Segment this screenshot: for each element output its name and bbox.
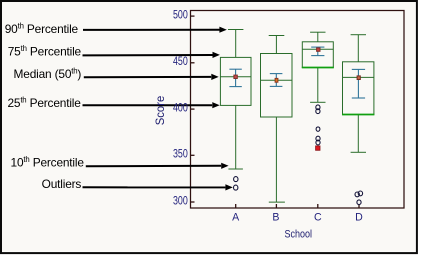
svg-text:75th Percentile: 75th Percentile	[8, 44, 82, 59]
svg-text:90th Percentile: 90th Percentile	[5, 22, 79, 37]
svg-text:350: 350	[173, 147, 188, 161]
svg-text:Outliers: Outliers	[42, 177, 82, 191]
svg-text:Score: Score	[153, 95, 167, 125]
svg-text:10th Percentile: 10th Percentile	[11, 155, 85, 170]
svg-text:300: 300	[173, 193, 188, 207]
svg-text:A: A	[232, 212, 240, 224]
svg-text:D: D	[355, 212, 363, 224]
svg-text:450: 450	[173, 54, 188, 68]
svg-text:B: B	[272, 212, 279, 224]
svg-text:C: C	[314, 212, 322, 224]
svg-text:400: 400	[173, 101, 188, 115]
svg-text:25th Percentile: 25th Percentile	[7, 96, 81, 111]
svg-text:Median (50th): Median (50th)	[14, 67, 82, 82]
svg-text:School: School	[285, 228, 313, 240]
svg-text:500: 500	[173, 8, 188, 22]
